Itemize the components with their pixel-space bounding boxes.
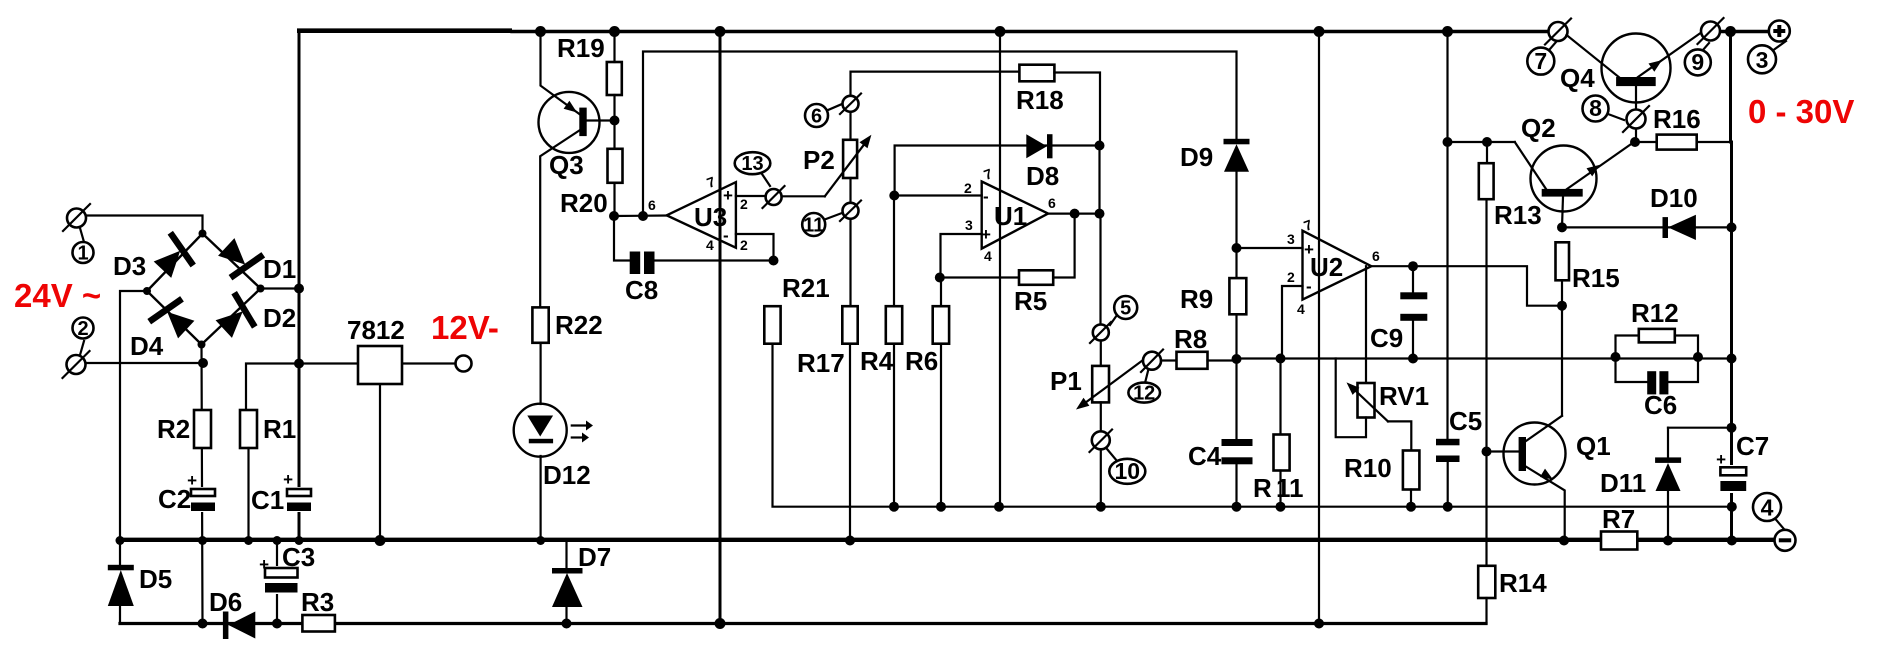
diode D6 on rail2 bbox=[209, 587, 255, 639]
potentiometer P2 bbox=[803, 135, 871, 197]
wire main vertical x=1319 U2 supply column to rail2 bbox=[1318, 32, 1320, 624]
regulator U 7812 bbox=[347, 315, 463, 541]
junction top rail x1447 bbox=[1442, 26, 1453, 37]
svg-text:R14: R14 bbox=[1499, 568, 1547, 598]
wire terminal8 junction to output column through R16 bbox=[1636, 141, 1732, 143]
svg-text:4: 4 bbox=[1761, 495, 1774, 521]
junction sub-rail x1000 bbox=[994, 502, 1004, 512]
terminal 1 wire bbox=[86, 216, 203, 234]
junction bridge top vertex bbox=[199, 230, 207, 238]
svg-text:RV1: RV1 bbox=[1379, 381, 1429, 411]
node label 8 bbox=[1583, 95, 1625, 122]
svg-text:R2: R2 bbox=[157, 414, 190, 444]
wire bridge left vertex to D5 column bbox=[120, 291, 147, 565]
terminal 12V output circle bbox=[456, 356, 472, 372]
svg-text:D6: D6 bbox=[209, 587, 242, 617]
wire U2 minus input jog bbox=[1282, 286, 1303, 359]
diode D8 bbox=[1026, 134, 1059, 191]
terminal 8 circle bbox=[1623, 106, 1649, 132]
junction top rail x1319 bbox=[1314, 26, 1325, 37]
svg-text:4: 4 bbox=[1297, 301, 1305, 317]
svg-text:11: 11 bbox=[1276, 473, 1304, 503]
svg-text:P1: P1 bbox=[1050, 366, 1082, 396]
junction R19 R20 base bbox=[610, 116, 620, 126]
svg-text:R1: R1 bbox=[263, 414, 296, 444]
svg-text:R20: R20 bbox=[560, 188, 608, 218]
wire RV1 bottom loop to mid-rail bbox=[1336, 359, 1366, 438]
svg-text:11: 11 bbox=[803, 215, 824, 237]
junction U2 output C9 RV1 bbox=[1408, 261, 1418, 271]
svg-text:C1: C1 bbox=[251, 485, 284, 515]
wire D9 to U2 plus input bbox=[1237, 247, 1303, 249]
svg-text:10: 10 bbox=[1115, 458, 1141, 484]
junction U1 output R5 bbox=[1070, 209, 1080, 219]
junction rail2 C2 column bbox=[198, 619, 208, 629]
svg-text:R18: R18 bbox=[1016, 85, 1064, 115]
svg-text:1: 1 bbox=[77, 243, 88, 265]
svg-text:C6: C6 bbox=[1644, 390, 1677, 420]
junction sub-rail R6 bbox=[936, 502, 946, 512]
svg-text:13: 13 bbox=[741, 153, 763, 175]
svg-text:R9: R9 bbox=[1180, 284, 1213, 314]
junction minus input R4 column bbox=[889, 191, 899, 201]
led D12 bbox=[514, 343, 593, 541]
resistor R11 bbox=[1253, 359, 1304, 507]
junction R12 right node bbox=[1693, 352, 1703, 362]
svg-text:C9: C9 bbox=[1370, 323, 1403, 353]
wire D10 row bbox=[1562, 226, 1732, 228]
terminal 4 circle with minus bbox=[1775, 530, 1796, 551]
resistor R8 bbox=[1174, 324, 1237, 369]
junction top rail x1000 bbox=[995, 26, 1006, 37]
svg-text:C5: C5 bbox=[1449, 406, 1482, 436]
node label 4 bbox=[1753, 493, 1784, 529]
junction C9 bottom mid-rail bbox=[1408, 354, 1418, 364]
svg-text:3: 3 bbox=[1756, 47, 1769, 73]
resistor R1 bbox=[240, 410, 296, 448]
svg-text:D7: D7 bbox=[578, 542, 611, 572]
wire right main vertical x=1732 output column bbox=[1731, 32, 1732, 468]
svg-text:2: 2 bbox=[77, 318, 88, 340]
svg-text:-: - bbox=[983, 187, 989, 206]
op-amp U3 bbox=[648, 173, 748, 253]
svg-text:Q4: Q4 bbox=[1560, 63, 1595, 93]
junction top rail R19 bbox=[609, 26, 620, 37]
capacitor C2 bbox=[158, 471, 216, 514]
svg-text:P2: P2 bbox=[803, 145, 835, 175]
wire negative rail2 bbox=[120, 622, 1486, 625]
svg-text:12: 12 bbox=[1133, 383, 1155, 405]
diode D4 bottom-left side of bridge bbox=[146, 290, 200, 344]
junction R17 rail1 bbox=[845, 536, 855, 546]
wire R5 row bbox=[940, 214, 1075, 278]
junction rail1 7812 bbox=[375, 535, 386, 546]
junction sub-rail C5 bbox=[1443, 502, 1453, 512]
svg-text:2: 2 bbox=[740, 237, 748, 253]
wire R20 bottom down to C8 bbox=[614, 216, 630, 261]
wire output column down to terminal 5 bbox=[1100, 146, 1101, 326]
svg-text:D12: D12 bbox=[543, 460, 591, 490]
svg-text:U2: U2 bbox=[1310, 252, 1343, 282]
wire terminal 13 to P2 wiper bbox=[782, 195, 825, 197]
junction rail1 C2 bbox=[198, 536, 207, 545]
wire mid rail y=358 from R9 junction to output column bbox=[1237, 357, 1732, 359]
junction D8 cathode column bbox=[1095, 141, 1105, 151]
svg-text:3: 3 bbox=[1287, 231, 1295, 247]
junction R13 top bbox=[1482, 137, 1492, 147]
svg-text:D5: D5 bbox=[139, 564, 172, 594]
op-amp U2 bbox=[1287, 216, 1380, 317]
junction rail1 x120 bbox=[116, 536, 125, 545]
capacitor C5 bbox=[1436, 406, 1482, 507]
junction top rail output column bbox=[1725, 26, 1736, 37]
junction R12 left node bbox=[1611, 352, 1621, 362]
junction bridge bottom vertex bbox=[198, 341, 206, 349]
svg-text:6: 6 bbox=[811, 106, 822, 128]
wire P2 top to R18 bbox=[851, 72, 1020, 96]
diode D11 bbox=[1600, 428, 1681, 541]
wire U1 minus input bbox=[895, 194, 982, 196]
svg-text:+: + bbox=[1716, 450, 1726, 469]
svg-text:R19: R19 bbox=[557, 33, 605, 63]
svg-text:5: 5 bbox=[1120, 298, 1131, 320]
capacitor C7 bbox=[1716, 431, 1769, 493]
junction U2 minus mid-rail bbox=[1276, 354, 1286, 364]
junction terminal8 R16 bbox=[1630, 137, 1640, 147]
junction rail2 x720 bbox=[715, 618, 726, 629]
junction C8 R21 U3pin2 bbox=[769, 256, 779, 266]
svg-text:3: 3 bbox=[965, 217, 973, 233]
terminal 3 circle with plus bbox=[1769, 21, 1790, 42]
node label 11 bbox=[802, 213, 842, 237]
wire R12 C6 parallel loop bbox=[1616, 336, 1699, 383]
svg-text:C7: C7 bbox=[1736, 431, 1769, 461]
svg-text:+: + bbox=[259, 555, 269, 574]
capacitor C3 bbox=[259, 541, 315, 624]
wire terminal 11 to R17 bbox=[849, 219, 851, 306]
svg-text:D10: D10 bbox=[1650, 183, 1698, 213]
resistor R3 on rail2 bbox=[301, 587, 335, 632]
terminal 13 circle bbox=[763, 186, 785, 208]
svg-text:C3: C3 bbox=[282, 542, 315, 572]
terminal 2 wire bbox=[86, 362, 204, 364]
svg-text:R21: R21 bbox=[782, 273, 830, 303]
diode D2 bottom-right side of bridge bbox=[210, 290, 264, 344]
resistor R21 bbox=[764, 273, 829, 344]
svg-text:9: 9 bbox=[1691, 49, 1704, 75]
resistor R16 bbox=[1653, 104, 1701, 150]
junction D9 R9 U2plus bbox=[1232, 243, 1242, 253]
junction U3 output to y51 rail bbox=[638, 211, 648, 221]
wire U2 output row to R15 junction bbox=[1371, 266, 1562, 306]
junction bridge left vertex bbox=[143, 287, 151, 295]
wire bridge bottom vertex down through R2 C2 to rails bbox=[202, 345, 203, 624]
terminal 6 circle bbox=[840, 94, 861, 115]
svg-text:R3: R3 bbox=[301, 587, 334, 617]
svg-text:R16: R16 bbox=[1653, 104, 1701, 134]
wire D8 row from R4 column bbox=[895, 146, 1100, 197]
svg-text:C4: C4 bbox=[1188, 441, 1222, 471]
svg-text:7812: 7812 bbox=[347, 315, 405, 345]
junction Q1 base R13 bbox=[1482, 447, 1492, 457]
wire terminal 10 to sub-rail bbox=[1100, 449, 1102, 506]
junction rail2 C3 bbox=[272, 619, 282, 629]
svg-text:2: 2 bbox=[1287, 269, 1295, 285]
wire main vertical x=720 from top rail to negative rail2 bbox=[719, 32, 722, 624]
wire bottom rail1 0V bbox=[120, 538, 1601, 542]
svg-text:R15: R15 bbox=[1572, 263, 1620, 293]
junction top rail x720 bbox=[715, 26, 726, 37]
node label 7 bbox=[1527, 42, 1556, 75]
svg-text:Q1: Q1 bbox=[1576, 431, 1611, 461]
svg-text:6: 6 bbox=[1372, 248, 1380, 264]
wire bottom rail1 right of R7 to terminal 4 bbox=[1638, 538, 1777, 542]
diode D3 top-left side of bridge bbox=[148, 230, 202, 284]
svg-text:R10: R10 bbox=[1344, 453, 1392, 483]
junction U3 output to R20 bbox=[609, 211, 619, 221]
junction D10 output column bbox=[1727, 222, 1737, 232]
svg-text:-: - bbox=[1306, 277, 1312, 296]
wire R15 bottom down to Q1 collector bbox=[1561, 306, 1563, 416]
wire U1 plus input jog bbox=[941, 234, 982, 278]
svg-text:Q2: Q2 bbox=[1521, 113, 1556, 143]
wire R1 top to 7812 input node bbox=[246, 364, 358, 412]
resistor R22 bbox=[532, 307, 602, 342]
junction D11 wire output column bbox=[1727, 423, 1737, 433]
resistor R13 bbox=[1479, 142, 1542, 566]
resistor R14 bbox=[1478, 566, 1547, 624]
junction rail1 C1 bbox=[295, 536, 304, 545]
svg-text:R4: R4 bbox=[860, 346, 894, 376]
junction rail2 D7 bbox=[562, 619, 572, 629]
wire R1 bottom to rail1 bbox=[247, 448, 249, 541]
junction R15 bottom U2 output bbox=[1557, 301, 1567, 311]
junction rail1 R1 bbox=[244, 536, 253, 545]
wire RV1 wiper to R10 bbox=[1388, 421, 1411, 450]
svg-text:24V ~: 24V ~ bbox=[14, 277, 101, 314]
wire D11 top row bbox=[1668, 427, 1732, 429]
resistor R18 bbox=[1016, 65, 1100, 146]
junction Q1 emitter rail1 bbox=[1559, 536, 1569, 546]
svg-text:D9: D9 bbox=[1180, 142, 1213, 172]
wire P2 box to terminal 11 bbox=[849, 178, 851, 203]
junction x1447 column Q2 row bbox=[1443, 137, 1453, 147]
svg-text:C8: C8 bbox=[625, 275, 658, 305]
svg-text:6: 6 bbox=[648, 197, 656, 213]
terminal 10 circle bbox=[1090, 430, 1113, 453]
node label 9 bbox=[1685, 43, 1711, 75]
svg-text:R5: R5 bbox=[1014, 286, 1047, 316]
svg-text:R7: R7 bbox=[1602, 504, 1635, 534]
junction sub-rail terminal10 bbox=[1096, 502, 1106, 512]
transistor Q4 bbox=[1560, 33, 1701, 110]
junction x300 7812 input bbox=[294, 359, 304, 369]
svg-text:R: R bbox=[1253, 473, 1272, 503]
wire RV1 top stub from U2 output bbox=[1365, 266, 1367, 383]
svg-text:D2: D2 bbox=[263, 303, 296, 333]
resistor R10 bbox=[1344, 451, 1419, 507]
svg-text:D4: D4 bbox=[130, 331, 164, 361]
svg-text:R22: R22 bbox=[555, 310, 603, 340]
junction rail1 D12 bbox=[536, 536, 545, 545]
junction R5 R6 plus-input bbox=[935, 273, 945, 283]
svg-text:0 - 30V: 0 - 30V bbox=[1748, 93, 1854, 130]
junction C7 rail1 bbox=[1727, 536, 1737, 546]
terminal 5 circle bbox=[1090, 322, 1111, 343]
wire main vertical x=1447 top rail to C5 bbox=[1446, 32, 1448, 439]
transistor Q2 bbox=[1515, 113, 1634, 227]
junction terminal2 to bridge bottom column bbox=[198, 358, 208, 368]
wire terminal6 to P2 box bbox=[849, 112, 851, 140]
svg-text:D11: D11 bbox=[1600, 468, 1646, 498]
node label 5 bbox=[1110, 296, 1137, 325]
svg-text:+: + bbox=[283, 470, 293, 489]
svg-text:6: 6 bbox=[1048, 195, 1056, 211]
wire bridge diamond bbox=[147, 234, 261, 345]
resistor R5 bbox=[1014, 270, 1053, 316]
svg-text:12V-: 12V- bbox=[431, 309, 499, 346]
svg-text:R17: R17 bbox=[797, 348, 845, 378]
terminal 9 circle bbox=[1698, 18, 1724, 44]
svg-text:R12: R12 bbox=[1631, 298, 1679, 328]
svg-text:D8: D8 bbox=[1026, 161, 1059, 191]
junction R9 R8 C4 mid-rail bbox=[1232, 354, 1242, 364]
svg-text:-: - bbox=[723, 226, 729, 245]
wire terminal 8 to R16 row bbox=[1635, 129, 1637, 143]
junction sub-rail R4 bbox=[889, 502, 899, 512]
svg-text:4: 4 bbox=[984, 248, 992, 264]
terminal 1 connector circle bbox=[63, 204, 90, 231]
wire top rail +V unregulated bbox=[298, 32, 301, 290]
diode D1 top-right side of bridge bbox=[212, 232, 266, 286]
svg-text:4: 4 bbox=[706, 237, 714, 253]
potentiometer P1 bbox=[1050, 360, 1143, 409]
node label 2 bbox=[73, 318, 94, 356]
resistor R9 bbox=[1180, 278, 1246, 358]
resistor R2 bbox=[157, 410, 211, 448]
resistor R4 bbox=[860, 196, 902, 507]
wire P1 to terminal 10 bbox=[1100, 402, 1102, 432]
svg-text:+: + bbox=[1304, 240, 1314, 259]
wire right main vertical lower part through C7 to rail1 bbox=[1730, 491, 1733, 541]
svg-text:+: + bbox=[981, 225, 991, 244]
wire U3 plus input to terminal 13 bbox=[736, 195, 766, 197]
wire U3 output row bbox=[614, 214, 667, 217]
svg-text:2: 2 bbox=[740, 196, 748, 212]
resistor R7 on rail1 bbox=[1601, 504, 1637, 550]
wire terminal 12 to R8 bbox=[1161, 359, 1177, 361]
junction sub-rail C4 bbox=[1232, 502, 1242, 512]
capacitor C1 bbox=[251, 470, 313, 515]
node label 12 bbox=[1128, 371, 1160, 405]
junction top rail Q3 bbox=[535, 26, 546, 37]
resistor R6 bbox=[905, 278, 949, 507]
diode D7 bbox=[552, 541, 611, 624]
junction U1 output column bbox=[1095, 209, 1105, 219]
junction rail1 C3 bbox=[273, 536, 282, 545]
node label 1 bbox=[73, 228, 94, 265]
terminal 11 circle bbox=[840, 201, 861, 222]
svg-text:2: 2 bbox=[964, 180, 972, 196]
potentiometer RV1 bbox=[1347, 381, 1430, 421]
terminal 7 circle bbox=[1545, 19, 1571, 45]
diode D9 bbox=[1180, 139, 1250, 278]
wire top rail right segment to terminal 3 bbox=[1720, 30, 1771, 33]
resistor R12 bbox=[1631, 298, 1679, 342]
node label 13 bbox=[735, 152, 771, 186]
capacitor C9 bbox=[1370, 266, 1427, 358]
svg-text:R13: R13 bbox=[1494, 200, 1542, 230]
junction sub-rail R11 bbox=[1276, 502, 1286, 512]
resistor R15 bbox=[1556, 242, 1620, 305]
junction Q2 base D10 bbox=[1557, 222, 1567, 232]
svg-text:R6: R6 bbox=[905, 346, 938, 376]
svg-text:+: + bbox=[723, 186, 733, 205]
capacitor C4 bbox=[1188, 359, 1253, 507]
transistor Q1 bbox=[1486, 416, 1611, 541]
capacitor C8 bbox=[625, 252, 774, 306]
capacitor C6 bbox=[1644, 371, 1677, 420]
wire U1 output row bbox=[1048, 213, 1099, 215]
wire U3 minus input jog to C8 R21 junction bbox=[736, 234, 774, 261]
junction bridge right vertex bbox=[257, 285, 265, 293]
node label 6 bbox=[805, 104, 842, 128]
svg-text:R8: R8 bbox=[1174, 324, 1207, 354]
terminal 12 circle bbox=[1141, 350, 1163, 373]
wire bridge right vertex to x=300 column bbox=[261, 287, 300, 289]
diode D5 bbox=[108, 564, 172, 624]
op-amp U1 bbox=[964, 165, 1056, 264]
terminal 2 connector circle bbox=[63, 351, 90, 378]
transistor Q3 bbox=[539, 32, 615, 308]
node label 10 bbox=[1107, 449, 1145, 484]
wire terminal 5 to P1 bbox=[1100, 341, 1102, 367]
junction D11 rail1 bbox=[1663, 536, 1673, 546]
resistor R17 bbox=[797, 306, 858, 540]
wire x1000 column top rail to sub-rail bbox=[999, 32, 1001, 507]
junction sub-rail R10 bbox=[1406, 502, 1416, 512]
resistor R20 bbox=[560, 149, 623, 218]
svg-text:D3: D3 bbox=[113, 251, 146, 281]
svg-text:Q3: Q3 bbox=[549, 150, 584, 180]
diode D10 bbox=[1650, 183, 1698, 240]
wire sub-rail y=506.7 R21 bottom across to output column bbox=[773, 344, 1733, 507]
svg-text:8: 8 bbox=[1589, 95, 1602, 121]
junction x300 bridge right bbox=[294, 284, 304, 294]
junction mid-rail output column bbox=[1727, 354, 1737, 364]
junction rail2 x1319 bbox=[1314, 619, 1324, 629]
node label 3 bbox=[1748, 41, 1786, 73]
svg-text:D1: D1 bbox=[263, 254, 296, 284]
resistor R19 bbox=[557, 32, 622, 149]
wire U3 output rail y=51.5 to D9 bbox=[643, 52, 1237, 217]
svg-text:7: 7 bbox=[1534, 48, 1547, 74]
junction C7 sub-rail bbox=[1727, 502, 1737, 512]
wire C1 column x=300 bbox=[298, 289, 301, 541]
wire Q2 collector row y=142 bbox=[1448, 141, 1515, 143]
svg-text:C2: C2 bbox=[158, 484, 191, 514]
